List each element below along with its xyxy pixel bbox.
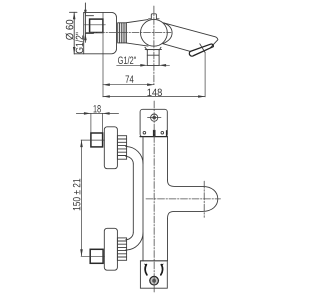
dim G1/2 arrow bottom: [84, 34, 87, 41]
wall extension line: [102, 12, 104, 97]
extension line 148 right: [204, 53, 206, 97]
cone to ball bottom: [126, 43, 148, 46]
outlet seam: [147, 54, 159, 56]
ext line union left: [90, 113, 92, 133]
dim 148 arrow right: [198, 95, 205, 98]
knob screw center: [152, 279, 156, 283]
plate hole center: [152, 116, 156, 120]
knob rect: [140, 261, 167, 288]
dim Ø60 line: [73, 12, 75, 54]
dim 18 line: [76, 112, 118, 114]
top union square: [91, 133, 103, 147]
top union cover: [104, 127, 117, 169]
body left edge: [142, 137, 144, 261]
top union ring: [117, 136, 126, 160]
tube top outer wall: [126, 147, 143, 164]
cone to ball top: [126, 20, 148, 23]
main vertical centerline: [153, 101, 155, 293]
bottom union square: [90, 249, 103, 263]
aerator axis line: [200, 44, 205, 53]
dim G1/2 tick bottom: [85, 32, 93, 34]
top plate: [140, 109, 167, 136]
spout vertical axis: [203, 181, 205, 217]
top ring knurl: [117, 139, 126, 156]
knob arrow right: [161, 265, 163, 275]
dim 18 arrow left: [84, 112, 91, 115]
nut knurled: [118, 23, 127, 43]
spout top edge: [163, 23, 218, 48]
spout centerline: [146, 198, 221, 200]
bottom union ring: [117, 238, 126, 260]
dim G1/2 line: [84, 3, 86, 42]
inlet square: [90, 19, 103, 32]
tube top inner wall: [126, 156, 134, 164]
body right edge lower: [167, 219, 169, 261]
dim 150 line: [81, 140, 83, 256]
dim 150 arrow bottom: [80, 249, 83, 256]
outlet flare right: [159, 47, 161, 50]
nut knurl lines: [119, 23, 121, 43]
dim Ø60 arrow top: [73, 12, 76, 19]
spout bottom edge: [163, 44, 191, 52]
outlet rect: [147, 50, 159, 66]
label G1/2 leader: [118, 56, 136, 64]
cap on top: [149, 14, 160, 19]
leader arrow left: [140, 64, 147, 67]
outlet shoulder: [145, 49, 161, 51]
outlet flare left: [145, 47, 147, 50]
body right edge upper: [167, 137, 169, 180]
plate tick right: [161, 131, 164, 134]
flange left edge: [83, 12, 85, 53]
dim 150 arrow top: [80, 140, 83, 147]
leader underline: [117, 64, 148, 66]
top union centerline: [81, 139, 105, 141]
plate hole ring: [151, 114, 158, 121]
plate slot center: [153, 130, 156, 136]
plate screw left: [143, 131, 146, 134]
bottom union cover: [104, 228, 117, 270]
leader right segment: [159, 64, 169, 66]
label 18: [94, 105, 101, 113]
dim G1/2 tick top: [85, 15, 93, 17]
knob screw axis tick: [149, 280, 159, 282]
bottom union centerline: [81, 255, 105, 257]
dim 148 line: [103, 96, 205, 98]
bottom ring knurl: [117, 241, 126, 257]
knob arrow left head: [144, 264, 147, 267]
tube bottom inner wall: [126, 232, 134, 240]
plate bottom edge: [140, 136, 167, 138]
dim 18 arrow right: [103, 112, 110, 115]
dim Ø60 tick top: [70, 11, 78, 13]
dim G1/2 arrow top: [84, 10, 87, 16]
ball-spout intersection arc: [163, 23, 172, 44]
vertical axis centerline: [153, 6, 155, 85]
plate hole hline: [148, 117, 162, 119]
main axis centerline: [86, 31, 171, 33]
tube bottom outer wall: [126, 233, 143, 250]
tube left wall: [132, 164, 134, 232]
ext line union right: [102, 113, 104, 133]
label 148: [148, 89, 162, 97]
dim 74 arrow right: [147, 83, 154, 86]
label 150±21: [73, 179, 81, 210]
label G1/2 vertical: [75, 32, 83, 53]
spout front: [168, 180, 218, 219]
knob arrow left: [145, 265, 147, 275]
ball body: [141, 19, 168, 46]
body bottom edge: [140, 260, 167, 262]
aerator band: [189, 44, 213, 56]
knob arrow right head: [161, 264, 164, 267]
flange escutcheon: [74, 12, 116, 53]
label 74: [125, 76, 133, 83]
dim 148 arrow left: [103, 95, 110, 98]
dim 74 line: [103, 84, 154, 86]
knob screw: [150, 276, 159, 285]
inlet centerline: [85, 24, 106, 26]
dim Ø60 arrow bottom: [73, 47, 76, 54]
label Ø60: [66, 20, 74, 40]
leader arrow right: [159, 64, 166, 67]
plate mark edge: [166, 130, 167, 136]
dim 74 arrow left: [103, 83, 110, 86]
